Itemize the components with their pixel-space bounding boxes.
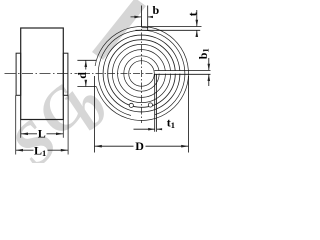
- outer ring inner circle: [108, 40, 176, 108]
- bore circle: [129, 61, 155, 87]
- inner ring shoulder circle: [124, 56, 159, 91]
- t1 left arrow (points right): [148, 128, 155, 131]
- lug hole left: [129, 103, 133, 107]
- t lower tangent line: [136, 29, 201, 31]
- groove circle: [103, 35, 180, 112]
- b1 down arrow: [208, 64, 211, 71]
- lug hole right: [148, 103, 152, 107]
- svg-text:D: D: [135, 139, 144, 153]
- b1 lower line: [155, 73, 211, 75]
- b dimension line: [131, 16, 152, 18]
- svg-text:b: b: [152, 3, 159, 17]
- b1 dimension line: [208, 58, 210, 86]
- t1 right arrow (points left): [157, 128, 163, 130]
- d upper tick: [77, 59, 96, 61]
- b left arrow: [134, 16, 141, 19]
- b1 upper line: [155, 69, 211, 71]
- inner-ring left strip: [16, 53, 21, 95]
- svg-text:t: t: [186, 12, 200, 16]
- t upper tangent line: [148, 26, 202, 28]
- D right arrow: [181, 145, 188, 148]
- L1 dimension line: [16, 149, 68, 151]
- inner ring outer circle: [118, 50, 166, 98]
- t down arrow: [196, 20, 199, 27]
- svg-text:d: d: [75, 72, 89, 79]
- horizontal centerline: [83, 73, 154, 75]
- snap-ring outer circle (gap at left for d zone): [95, 26, 188, 120]
- white mask over circles between b1 lines: [155, 71, 183, 74]
- groove box bottom: [141, 27, 147, 29]
- b right arrow: [148, 16, 153, 18]
- D extension lines: [95, 76, 189, 153]
- d lower tick: [77, 86, 96, 88]
- t up arrow: [196, 30, 199, 37]
- t1 gap lines: [155, 74, 157, 132]
- L1 left arrow: [16, 149, 23, 152]
- D dimension line: [95, 145, 189, 147]
- L extension lines: [21, 120, 64, 138]
- L right arrow: [56, 133, 63, 136]
- watermark diagonal stroke: [92, 0, 146, 60]
- L1 extension lines: [16, 95, 68, 154]
- race circle: [112, 44, 170, 102]
- b1 up arrow: [208, 74, 211, 81]
- d dimension line: [85, 60, 87, 86]
- arrows right view: [85, 16, 211, 148]
- svg-text:L: L: [38, 127, 46, 141]
- centerline: [5, 73, 78, 75]
- D left arrow: [95, 145, 102, 148]
- d up arrow: [85, 60, 88, 67]
- outer-ring rectangle: [21, 28, 64, 120]
- t dimension line: [196, 10, 198, 37]
- L1 right arrow: [61, 149, 68, 152]
- L dimension line: [21, 133, 64, 135]
- t1 dimension line: [134, 128, 163, 130]
- b extension lines: [141, 6, 147, 31]
- OD circle with bottom gap: [98, 30, 185, 115]
- inner-ring right strip: [63, 53, 68, 95]
- d down arrow: [85, 80, 88, 87]
- L left arrow: [21, 133, 28, 136]
- vertical centerline: [140, 20, 142, 123]
